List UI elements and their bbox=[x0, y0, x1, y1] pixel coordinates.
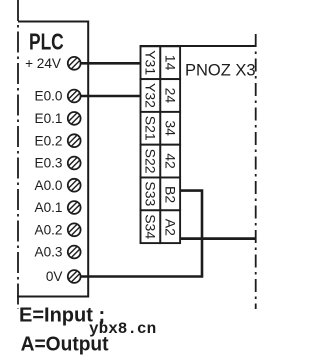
PLC enclosure bbox=[17, 22, 88, 297]
svg-text:Y32: Y32 bbox=[143, 83, 159, 108]
svg-text:PNOZ X3: PNOZ X3 bbox=[185, 62, 256, 80]
svg-text:PLC: PLC bbox=[29, 30, 64, 55]
PNOZ terminal Y31 bbox=[141, 46, 161, 79]
PNOZ terminal A2 bbox=[160, 210, 180, 243]
wire 0V to B2 (via vertical riser) bbox=[81, 191, 203, 277]
PNOZ terminal 42 bbox=[160, 145, 180, 178]
PLC terminal A0.3 bbox=[35, 245, 81, 260]
PLC terminal A0.1 bbox=[35, 200, 81, 215]
svg-text:E0.2: E0.2 bbox=[35, 133, 63, 148]
svg-text:A2: A2 bbox=[162, 219, 178, 236]
cabinet boundary right (dash-dot line) bbox=[255, 34, 257, 309]
svg-text:E0.0: E0.0 bbox=[35, 89, 63, 104]
wire E0.0 to Y32 bbox=[81, 95, 141, 98]
PNOZ terminal S22 bbox=[141, 145, 161, 178]
svg-text:A0.3: A0.3 bbox=[35, 245, 63, 260]
PLC terminal E0.1 bbox=[35, 111, 81, 126]
svg-text:14: 14 bbox=[162, 55, 178, 71]
PNOZ terminal 24 bbox=[160, 79, 180, 112]
PLC terminal A0.0 bbox=[35, 178, 81, 193]
svg-text:S22: S22 bbox=[143, 149, 159, 174]
svg-text:A0.0: A0.0 bbox=[35, 178, 63, 193]
svg-text:S34: S34 bbox=[143, 214, 159, 239]
svg-text:24: 24 bbox=[162, 88, 178, 104]
PLC terminal E0.3 bbox=[35, 156, 81, 171]
wire +24V to Y31 bbox=[81, 62, 141, 65]
svg-text:B2: B2 bbox=[162, 186, 178, 203]
PNOZ terminal 34 bbox=[160, 112, 180, 145]
PNOZ terminal S33 bbox=[141, 178, 161, 211]
PLC terminal E0.0 bbox=[35, 89, 81, 104]
svg-text:S21: S21 bbox=[143, 116, 159, 141]
svg-text:+ 24V: + 24V bbox=[25, 56, 61, 71]
svg-text:A=Output: A=Output bbox=[21, 333, 109, 355]
svg-text:A0.1: A0.1 bbox=[35, 200, 63, 215]
svg-text:42: 42 bbox=[162, 153, 178, 169]
svg-text:34: 34 bbox=[162, 120, 178, 136]
PNOZ terminal S34 bbox=[141, 210, 161, 243]
svg-text:E0.3: E0.3 bbox=[35, 156, 63, 171]
PNOZ terminal S21 bbox=[141, 112, 161, 145]
PNOZ terminal Y32 bbox=[141, 79, 161, 112]
PNOZ terminal B2 bbox=[160, 178, 180, 211]
PLC terminal 0V bbox=[46, 269, 81, 284]
svg-text:E0.1: E0.1 bbox=[35, 111, 63, 126]
svg-text:0V: 0V bbox=[46, 269, 63, 284]
PLC terminal +24V bbox=[25, 56, 81, 71]
svg-text:S33: S33 bbox=[143, 181, 159, 206]
PNOZ terminal 14 bbox=[160, 46, 180, 79]
cabinet boundary left (dash-dot line) bbox=[17, 0, 19, 309]
svg-text:Y31: Y31 bbox=[143, 50, 159, 75]
svg-text:A0.2: A0.2 bbox=[35, 223, 63, 238]
PLC terminal E0.2 bbox=[35, 133, 81, 148]
PNOZ X3 top edge bbox=[140, 45, 256, 47]
PLC terminal A0.2 bbox=[35, 223, 81, 238]
wire A2 to right boundary bbox=[180, 237, 257, 240]
